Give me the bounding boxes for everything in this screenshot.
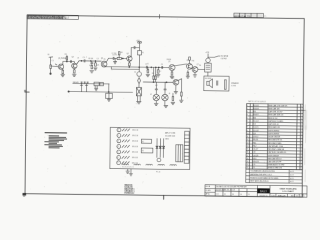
wire W6 to W7 b [85, 84, 87, 92]
node table row 17 [247, 155, 302, 158]
connector J1 pin 1 [117, 128, 121, 132]
svg-text:6: 6 [118, 157, 119, 159]
resistor R5 [91, 65, 93, 68]
svg-text:XSTR 2N3904: XSTR 2N3904 [268, 130, 279, 132]
transistor Q5 [169, 65, 175, 71]
connector J1 body [184, 131, 189, 163]
svg-text:3: 3 [118, 141, 119, 143]
capacitor C11 [217, 81, 218, 86]
parts list table [246, 104, 303, 170]
svg-text:1: 1 [118, 130, 119, 132]
ground G21 [107, 99, 110, 101]
node table row 13 [247, 141, 302, 145]
svg-text:R C R C R C R C R: R C R C R C R C R [122, 167, 133, 169]
junction node J [155, 67, 156, 68]
svg-text:44: 44 [169, 93, 171, 95]
node value labels scatter [65, 56, 202, 87]
driver U1 [205, 58, 212, 72]
wire Q2 collector to C3 [77, 61, 84, 65]
ground G2 [61, 74, 65, 76]
svg-text:OUTPUT: OUTPUT [221, 58, 227, 60]
wire node B to C2 [67, 60, 72, 62]
resistor R11 [153, 76, 155, 79]
lamp DS1 [137, 72, 142, 77]
node table row 21 [246, 167, 301, 170]
resistor R25 [122, 151, 130, 153]
wire J2 down [50, 57, 52, 65]
svg-text:1K: 1K [146, 70, 148, 72]
capacitor C2 [69, 60, 72, 62]
svg-text:K1: K1 [142, 141, 144, 143]
svg-text:CR1,2: CR1,2 [253, 136, 258, 138]
junction node G [129, 66, 130, 67]
ground G19 [186, 76, 189, 78]
resistor R35 [170, 163, 177, 166]
wire R3 to node B [66, 60, 68, 62]
node table row 20 [246, 163, 301, 167]
wire sub bus [111, 68, 139, 70]
parts list footer rows [246, 169, 303, 183]
svg-text:C1,C2: C1,C2 [253, 121, 258, 123]
ground G5 [94, 68, 98, 70]
logo patch [257, 188, 269, 193]
connector J1 pin 6 [117, 155, 121, 159]
wire to R13 [172, 93, 174, 96]
node table row 10 [247, 133, 302, 136]
wire bus drop [110, 67, 112, 69]
wire R19 drop [187, 70, 189, 72]
svg-text:SW 5 1K: SW 5 1K [132, 152, 138, 154]
svg-text:1K: 1K [77, 58, 79, 60]
wire Q6 collector up [188, 60, 190, 63]
junction node N [108, 91, 109, 92]
svg-text:10K: 10K [152, 73, 154, 75]
node table row 7 [247, 123, 302, 127]
svg-text:CAP CER .05 25V: CAP CER .05 25V [268, 110, 283, 113]
node table row 3 [247, 110, 302, 114]
wire Q3 collector to W3 [106, 58, 112, 62]
svg-text:CAP ELEC 10 MFD: CAP ELEC 10 MFD [268, 120, 284, 123]
svg-text:20: 20 [246, 164, 248, 166]
node note 7 [44, 144, 62, 145]
wire Q6 to Q7 [190, 67, 193, 69]
wire R18 drop [118, 55, 120, 58]
wire C6 to supply leg [135, 47, 139, 49]
svg-text:Q6: Q6 [186, 60, 188, 62]
svg-text:R14,15: R14,15 [253, 161, 259, 163]
svg-text:R13: R13 [253, 158, 256, 160]
resistor R17 [224, 80, 226, 90]
wire Q5 to Q6 [175, 64, 187, 66]
wire C10 to DS3 [164, 90, 166, 94]
svg-text:9-6: 9-6 [232, 194, 234, 196]
junction node E [95, 60, 96, 61]
svg-text:SW 1 1K: SW 1 1K [132, 130, 138, 132]
svg-text:CAP ELEC 100 MFD 35: CAP ELEC 100 MFD 35 [268, 151, 286, 154]
ground G16 [193, 75, 197, 77]
wire R12 to W5 [155, 79, 157, 82]
transistor Q1 [58, 64, 63, 69]
resistor R16 [189, 57, 191, 60]
node table row 11 [247, 136, 302, 139]
resistor R3 [66, 57, 68, 60]
transistor Q2 [72, 63, 77, 68]
capacitor C14 [86, 82, 89, 84]
speaker LS1 [207, 79, 213, 88]
wire drop to R11 [153, 67, 155, 76]
wire supply to F1 [138, 43, 140, 50]
wire W6 end drop [108, 84, 110, 92]
revision block [27, 15, 78, 21]
wire Q8 emitter [175, 85, 177, 91]
node note 6 [49, 142, 57, 145]
wire supply to U1 [207, 54, 209, 58]
resistor R9 [147, 69, 149, 72]
node A junction [50, 73, 51, 74]
svg-text:SW 2 1K: SW 2 1K [132, 135, 138, 137]
svg-text:2.2: 2.2 [159, 71, 161, 73]
svg-text:R8: R8 [253, 117, 255, 119]
wire Q2 emitter [73, 69, 75, 70]
svg-text:K2: K2 [142, 150, 144, 152]
zone tick right border [301, 109, 306, 111]
wire Q8 collector down [178, 79, 182, 92]
wire Q5 emitter [171, 71, 173, 72]
wire C9 to DS2 [155, 90, 157, 94]
svg-text:SH: SH [296, 195, 298, 197]
transistor Q6 [187, 63, 193, 69]
node table row 15 [247, 149, 302, 152]
svg-text:IN: IN [48, 54, 50, 56]
capacitor C8 [161, 66, 164, 68]
svg-text:1 1: 1 1 [264, 16, 266, 18]
svg-text:TO SPKR: TO SPKR [221, 56, 229, 58]
wire K3 lead a [94, 86, 96, 88]
svg-text:R5: R5 [253, 111, 255, 113]
svg-text:Q4,Q5: Q4,Q5 [253, 155, 258, 157]
resistor R10 [157, 70, 159, 73]
svg-text:C8: C8 [253, 152, 255, 154]
wire C4 to R5 [91, 64, 93, 65]
wire box to ground [127, 169, 129, 171]
wire W7 [69, 91, 133, 94]
connector J1 pin 5 [117, 150, 121, 154]
svg-text:RES 1K 1/4: RES 1K 1/4 [268, 118, 277, 120]
capacitor C7 [145, 66, 148, 68]
wire node down [114, 58, 116, 61]
resistor R18 [118, 52, 120, 55]
connector J1 pin 2 [117, 133, 121, 137]
svg-text:18: 18 [247, 158, 249, 160]
svg-text:150: 150 [199, 65, 201, 67]
wire W5 [143, 81, 173, 83]
relay contact K3 [94, 82, 99, 85]
zone tick top border [159, 15, 161, 19]
svg-text:SW 6 1K: SW 6 1K [132, 157, 138, 159]
wire box to ground 2 [130, 169, 132, 173]
svg-text:8Ω SPKR: 8Ω SPKR [205, 78, 212, 80]
node note 1 [49, 134, 59, 137]
svg-text:XSTR 2N6109: XSTR 2N6109 [268, 155, 279, 157]
svg-text:RES CAR 47K 5%: RES CAR 47K 5% [268, 138, 282, 141]
capacitor C3 [83, 60, 86, 62]
svg-text:RES CAR 4.7K 1/4W 5%: RES CAR 4.7K 1/4W 5% [269, 104, 288, 107]
diode CR1 [138, 78, 141, 84]
svg-text:XFMR AUDIO 8 OHM: XFMR AUDIO 8 OHM [268, 163, 285, 166]
resistor R24 [122, 145, 130, 147]
title block [205, 185, 307, 198]
node note 4 [49, 140, 64, 141]
svg-text:C6,C7: C6,C7 [253, 149, 258, 151]
transistor Q8 [173, 79, 179, 85]
ground G14 [174, 91, 178, 93]
connector J1 pin 7 [117, 161, 121, 165]
svg-text:10: 10 [247, 133, 249, 135]
resistor R26 [122, 156, 130, 158]
node table row 1 [247, 104, 302, 108]
svg-text:19: 19 [246, 161, 248, 163]
svg-text:RES CAR 100K 1/4: RES CAR 100K 1/4 [268, 113, 283, 116]
resistor R4 [73, 70, 75, 73]
svg-text:12: 12 [247, 139, 249, 141]
node table row 4 [247, 113, 302, 117]
svg-text:DL 8-02: DL 8-02 [64, 18, 69, 20]
ground G9 [136, 102, 141, 104]
junction node H [139, 67, 140, 68]
svg-text:P1 J1: P1 J1 [156, 171, 160, 173]
junction node M [166, 82, 167, 83]
svg-text:2N: 2N [104, 59, 106, 61]
wire Q4 collector up [131, 48, 134, 57]
svg-text:RES CAR 1 MEG: RES CAR 1 MEG [268, 142, 282, 145]
wire F1 to lamp chain [138, 55, 140, 72]
svg-text:7: 7 [117, 162, 118, 164]
corner zone label [22, 193, 26, 196]
resistor R6 [95, 63, 97, 66]
ground G4 [90, 71, 94, 73]
svg-text:R5: R5 [89, 65, 91, 67]
svg-text:5: 5 [118, 152, 119, 154]
border frame [25, 15, 304, 197]
svg-text:Q3: Q3 [253, 133, 255, 135]
svg-text:RES CAR 10K: RES CAR 10K [269, 107, 281, 110]
lamp DS3 [162, 94, 168, 100]
svg-text:47K: 47K [65, 58, 67, 60]
ground G12 [171, 102, 175, 104]
resistor R15 [171, 72, 173, 75]
wire Q3 emitter to bus [103, 66, 105, 68]
capacitor C10 [164, 88, 166, 91]
capacitor C4 [91, 62, 93, 65]
relay K1 [141, 139, 151, 143]
capacitor C13 [83, 82, 86, 84]
node scan noise [304, 110, 307, 130]
svg-text:8 OHM: 8 OHM [231, 85, 237, 87]
wire C5 to R7 [114, 57, 116, 59]
svg-text:44: 44 [150, 94, 152, 96]
node bottom stamp block [124, 184, 135, 195]
node table row 9 [247, 130, 302, 133]
svg-text:11: 11 [247, 136, 249, 138]
resistor R27 [122, 162, 130, 164]
node table row 5 [247, 117, 302, 120]
wire R8 to bus [128, 66, 130, 67]
svg-text:LOG CHART: LOG CHART [282, 190, 294, 193]
svg-text:GAME STANDARD: GAME STANDARD [280, 187, 298, 190]
resistor R23 [122, 140, 130, 142]
junction node C [81, 60, 82, 61]
junction node K [158, 67, 159, 68]
svg-text:B PROD REL PER ECN 4471 REDRAW: B PROD REL PER ECN 4471 REDRAWN CH [28, 17, 67, 20]
capacitor C12 [80, 82, 83, 84]
node NOTES heading [45, 132, 67, 133]
wire C3 to Q3 [85, 60, 101, 62]
speaker enclosure box [204, 76, 229, 91]
svg-text:FORM 1042: FORM 1042 [125, 192, 135, 194]
wire W5 to C10 [164, 82, 166, 88]
wire R11 to W5 [153, 79, 155, 82]
ground G13 [179, 100, 183, 102]
svg-text:R12: R12 [253, 146, 256, 148]
capacitor C5 [112, 57, 115, 59]
zone tick left border [25, 91, 29, 93]
resistor R14 [181, 92, 183, 96]
svg-text:4080-25: 4080-25 [277, 195, 286, 197]
node title block small texts [206, 185, 251, 196]
ground G3 [72, 74, 76, 76]
node note 5 [44, 141, 59, 142]
node W7 terminal [68, 91, 69, 92]
junction node F [122, 58, 123, 59]
resistor R22 [122, 134, 130, 136]
node drawing number [271, 194, 305, 198]
wire DS3 to ground [164, 101, 166, 105]
wire U1 to speaker box [207, 72, 209, 76]
wire Q7 to U1 [198, 68, 205, 70]
ground G8 [156, 75, 160, 77]
svg-text:SW 3 1K: SW 3 1K [132, 141, 138, 143]
svg-text:R1,R2: R1,R2 [254, 105, 259, 107]
svg-text:CK RW: CK RW [206, 190, 212, 192]
wire T1 lead b [139, 96, 141, 101]
svg-text:7-12: 7-12 [216, 194, 219, 196]
svg-text:DR JM: DR JM [206, 186, 211, 188]
resistor network RN1 [176, 145, 183, 162]
ground G20 [95, 88, 98, 90]
ground G18 [129, 174, 132, 176]
svg-text:RES CAR 330 1/2: RES CAR 330 1/2 [268, 157, 282, 160]
svg-text:Q2: Q2 [72, 56, 74, 58]
drawing number strip [234, 13, 267, 18]
resistor R8 [129, 63, 131, 66]
svg-text:C1: C1 [52, 60, 54, 62]
fuse F1 [138, 51, 142, 55]
svg-text:4: 4 [118, 146, 119, 148]
resistor R1 [50, 65, 52, 69]
wire C2 to Q2 base [72, 62, 74, 64]
ground G7 [146, 74, 150, 76]
svg-text:44V: 44V [155, 85, 157, 87]
node table row 12 [247, 138, 302, 142]
resistor R13 [172, 97, 174, 101]
wire node A to Q1 base [51, 65, 59, 68]
svg-text:13: 13 [247, 142, 249, 144]
wire main bus W4 [104, 66, 169, 69]
filter block FL1 [106, 93, 113, 98]
connector J1 pin 3 [117, 139, 121, 143]
wire Q1 emitter [62, 69, 64, 70]
svg-text:R3,R4: R3,R4 [254, 108, 259, 110]
node table row 16 [247, 151, 302, 155]
wire Q1 collector up [63, 61, 67, 64]
svg-text:16: 16 [247, 152, 249, 154]
zone tick bottom border [163, 195, 165, 199]
node table row 8 [247, 126, 302, 130]
svg-text:SOLDER SIDE: SOLDER SIDE [165, 135, 175, 137]
connector J2 input terminal [49, 56, 53, 58]
resistor R2 [62, 70, 64, 73]
capacitor C9 [155, 88, 157, 91]
svg-text:C9: C9 [253, 164, 255, 166]
junction node I [151, 67, 152, 68]
wire drop R9 [147, 67, 149, 69]
svg-text:C3: C3 [83, 57, 85, 59]
ground G11 [164, 105, 168, 107]
relay contact K4 [100, 82, 104, 85]
wire R14 to ground [180, 96, 182, 100]
wire DS2 to ground [155, 101, 157, 103]
capacitor C6 [133, 46, 136, 48]
connector box outline [110, 127, 190, 169]
ground G17 [126, 171, 130, 173]
svg-text:8-2: 8-2 [224, 194, 226, 196]
diode CR2 [156, 138, 158, 157]
node table row 6 [247, 119, 302, 123]
svg-text:C4: C4 [97, 58, 99, 60]
svg-text:14: 14 [247, 145, 249, 147]
svg-text:XSTR 2N3906: XSTR 2N3906 [268, 133, 279, 135]
node note 8 [49, 146, 63, 147]
svg-text:SW 4 1K: SW 4 1K [132, 146, 138, 148]
svg-text:C4,C5: C4,C5 [253, 127, 258, 129]
svg-text:RES CAR 2.2K: RES CAR 2.2K [268, 126, 280, 129]
resistor R21 [122, 129, 130, 131]
power terminal +27V [136, 40, 142, 43]
wire node E down [94, 61, 96, 63]
svg-text:2.2 10K: 2.2 10K [112, 53, 117, 55]
svg-text:C5 R7: C5 R7 [112, 55, 116, 57]
resistor R32 [134, 163, 141, 166]
node note 9 [49, 146, 60, 149]
resistor R31 [122, 163, 129, 166]
junction node D [90, 60, 91, 61]
wire R3 top [66, 55, 68, 56]
diode CR3 [159, 138, 161, 157]
svg-text:CAP CER 470 PF: CAP CER 470 PF [268, 160, 281, 163]
transistor Q7 [192, 66, 198, 72]
wire W6 [73, 82, 109, 84]
wire W5 to C9 [155, 82, 157, 88]
svg-text:6V: 6V [134, 72, 136, 74]
node note 3 [49, 138, 67, 139]
resistor R12 [155, 76, 157, 79]
ground G6 [113, 62, 116, 64]
resistor R7 [117, 57, 121, 59]
wire Q7 emitter [194, 72, 196, 74]
svg-text:Q5: Q5 [168, 61, 170, 63]
wire drop R10 [157, 67, 159, 69]
ground G10 [154, 103, 158, 105]
